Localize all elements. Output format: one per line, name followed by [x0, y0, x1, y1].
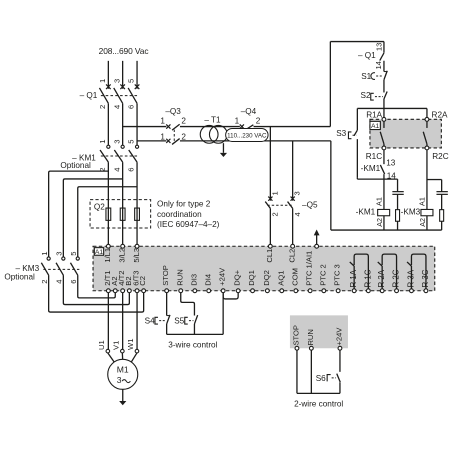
- svg-text:R1C: R1C: [366, 152, 382, 161]
- svg-text:5: 5: [127, 140, 136, 144]
- svg-text:A1: A1: [418, 197, 427, 206]
- svg-text:4: 4: [112, 168, 121, 172]
- svg-text:2: 2: [181, 117, 186, 126]
- svg-text:4: 4: [293, 212, 302, 216]
- svg-text:C2: C2: [138, 276, 147, 286]
- svg-text:3-wire control: 3-wire control: [168, 341, 217, 350]
- svg-text:coordination: coordination: [157, 210, 202, 219]
- svg-text:PTC 1/AI1: PTC 1/AI1: [305, 251, 314, 286]
- svg-text:1: 1: [160, 117, 165, 126]
- svg-text:A2: A2: [418, 218, 427, 227]
- svg-text:-KM1: -KM1: [356, 208, 376, 217]
- svg-text:3: 3: [112, 79, 121, 83]
- svg-text:4: 4: [55, 280, 64, 284]
- svg-text:14: 14: [374, 61, 383, 69]
- svg-text:DI3: DI3: [189, 274, 198, 286]
- svg-text:+24V: +24V: [334, 327, 343, 346]
- svg-text:–Q3: –Q3: [165, 107, 181, 116]
- svg-text:S4: S4: [145, 317, 155, 326]
- svg-text:4: 4: [112, 105, 121, 109]
- svg-text:2: 2: [256, 117, 261, 126]
- svg-text:1: 1: [160, 132, 165, 141]
- svg-text:R2A: R2A: [432, 111, 448, 120]
- svg-text:6: 6: [127, 168, 136, 172]
- svg-text:PTC 2: PTC 2: [318, 264, 327, 286]
- svg-text:3: 3: [112, 140, 121, 144]
- svg-text:Optional: Optional: [60, 161, 91, 170]
- svg-text:3: 3: [117, 375, 122, 385]
- svg-text:1: 1: [235, 117, 240, 126]
- svg-text:-KM1: -KM1: [361, 164, 381, 173]
- svg-text:13: 13: [386, 159, 396, 168]
- svg-text:S2: S2: [361, 91, 371, 100]
- svg-text:5: 5: [127, 79, 136, 83]
- svg-text:5/L3: 5/L3: [132, 248, 141, 263]
- svg-text:3: 3: [55, 252, 64, 256]
- svg-text:STOP: STOP: [161, 265, 170, 286]
- svg-text:S5: S5: [174, 317, 184, 326]
- svg-text:DQ2: DQ2: [262, 270, 271, 286]
- svg-text:A1: A1: [375, 197, 384, 206]
- svg-text:Q2: Q2: [94, 202, 105, 211]
- svg-text:5: 5: [69, 252, 78, 256]
- svg-text:6: 6: [127, 105, 136, 109]
- svg-text:1/L1: 1/L1: [103, 248, 112, 263]
- svg-text:1: 1: [270, 191, 279, 195]
- svg-text:W1: W1: [126, 339, 135, 350]
- svg-text:– Q1: – Q1: [80, 91, 98, 100]
- svg-text:STOP: STOP: [291, 325, 300, 346]
- svg-text:(IEC 60947–4–2): (IEC 60947–4–2): [157, 220, 220, 229]
- svg-text:CL2: CL2: [287, 249, 296, 263]
- svg-text:DQ+: DQ+: [233, 269, 242, 285]
- svg-text:V1: V1: [111, 341, 120, 350]
- svg-text:S3: S3: [336, 129, 346, 138]
- svg-text:RUN: RUN: [306, 329, 315, 345]
- svg-text:Only for type 2: Only for type 2: [157, 200, 211, 209]
- svg-text:2-wire control: 2-wire control: [294, 400, 343, 409]
- svg-text:1: 1: [98, 79, 107, 83]
- svg-text:A2: A2: [375, 218, 384, 227]
- svg-text:1: 1: [40, 252, 49, 256]
- svg-text:6: 6: [69, 280, 78, 284]
- svg-text:3: 3: [293, 191, 302, 195]
- svg-text:AQ1: AQ1: [276, 271, 285, 286]
- svg-text:–Q4: –Q4: [241, 107, 257, 116]
- svg-text:Optional: Optional: [4, 273, 35, 282]
- svg-text:U1: U1: [97, 340, 106, 350]
- svg-text:3/L2: 3/L2: [117, 248, 126, 263]
- svg-text:RUN: RUN: [175, 269, 184, 285]
- svg-text:COM: COM: [290, 268, 299, 286]
- svg-text:CL1: CL1: [265, 249, 274, 263]
- svg-text:R1A: R1A: [366, 111, 382, 120]
- svg-text:2: 2: [271, 212, 280, 216]
- svg-text:208...690 Vac: 208...690 Vac: [99, 46, 149, 56]
- svg-text:2: 2: [40, 280, 49, 284]
- svg-text:PTC 3: PTC 3: [333, 264, 342, 286]
- svg-text:2: 2: [98, 105, 107, 109]
- svg-text:–Q5: –Q5: [302, 201, 318, 210]
- svg-text:S1: S1: [361, 72, 371, 81]
- svg-text:R2C: R2C: [432, 152, 448, 161]
- svg-text:13: 13: [375, 43, 384, 51]
- svg-text:DQ1: DQ1: [247, 270, 256, 286]
- svg-text:– T1: – T1: [204, 115, 221, 124]
- svg-text:1: 1: [98, 140, 107, 144]
- svg-text:+24V: +24V: [218, 267, 227, 286]
- svg-text:M1: M1: [117, 364, 129, 374]
- svg-text:-KM3: -KM3: [401, 208, 421, 217]
- svg-text:S6: S6: [316, 374, 326, 383]
- svg-text:A1: A1: [371, 123, 380, 130]
- svg-text:14: 14: [387, 172, 397, 181]
- svg-text:DI4: DI4: [203, 274, 212, 286]
- svg-text:110...230 VAC: 110...230 VAC: [227, 133, 267, 140]
- svg-text:– Q1: – Q1: [358, 51, 376, 60]
- svg-text:2: 2: [181, 132, 186, 141]
